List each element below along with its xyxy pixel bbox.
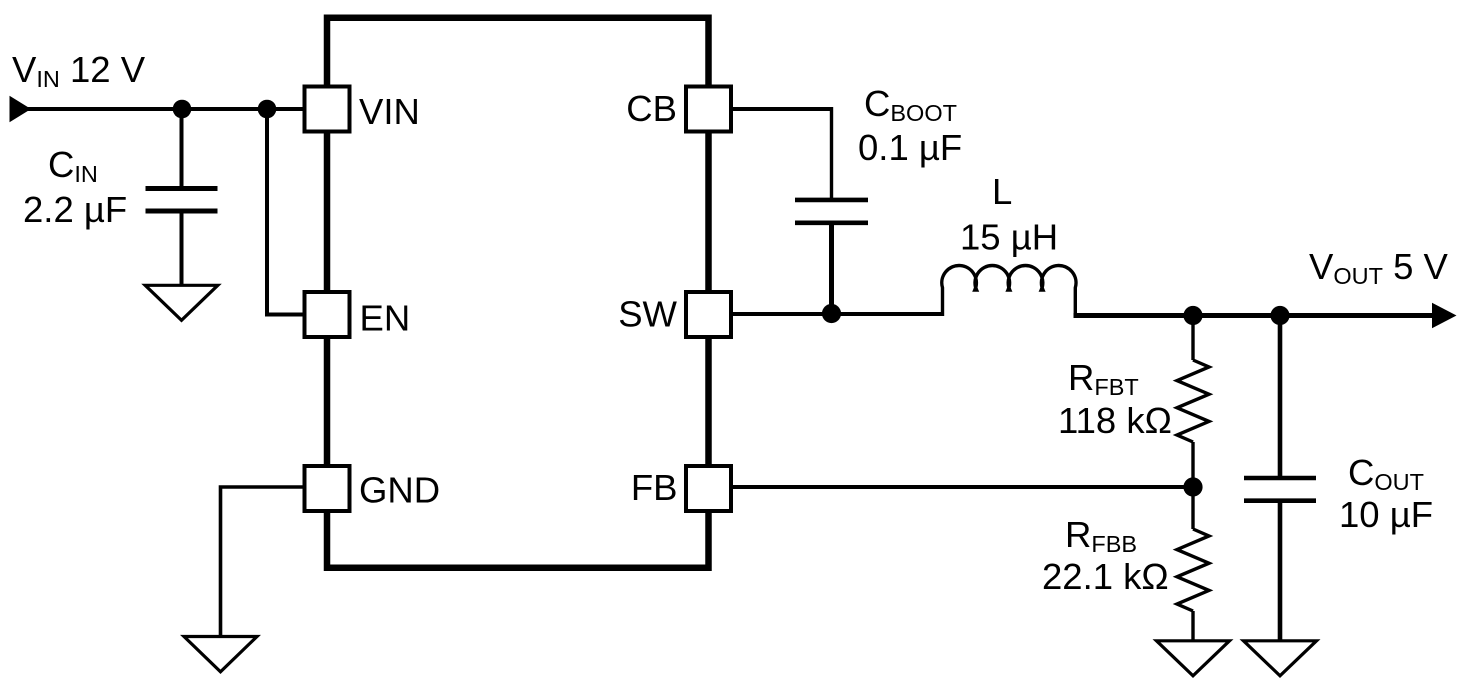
svg-text:FB: FB [631,467,678,508]
svg-text:2.2 µF: 2.2 µF [23,189,127,230]
svg-text:CB: CB [626,88,677,129]
svg-text:SW: SW [618,294,677,335]
svg-text:118 kΩ: 118 kΩ [1058,400,1172,441]
svg-text:CBOOT: CBOOT [864,83,957,126]
svg-text:COUT: COUT [1348,452,1424,495]
svg-text:GND: GND [359,470,440,511]
svg-text:VOUT 5 V: VOUT 5 V [1309,246,1449,289]
svg-text:10 µF: 10 µF [1339,494,1433,535]
svg-text:15 µH: 15 µH [960,217,1058,258]
svg-text:22.1 kΩ: 22.1 kΩ [1042,556,1169,597]
svg-text:RFBT: RFBT [1068,357,1139,400]
svg-text:L: L [992,171,1012,212]
svg-text:VIN: VIN [359,91,420,132]
svg-text:EN: EN [360,298,411,339]
svg-text:VIN 12 V: VIN 12 V [12,49,146,92]
svg-text:0.1 µF: 0.1 µF [858,127,962,168]
svg-text:CIN: CIN [48,144,98,187]
svg-text:RFBB: RFBB [1065,514,1137,557]
